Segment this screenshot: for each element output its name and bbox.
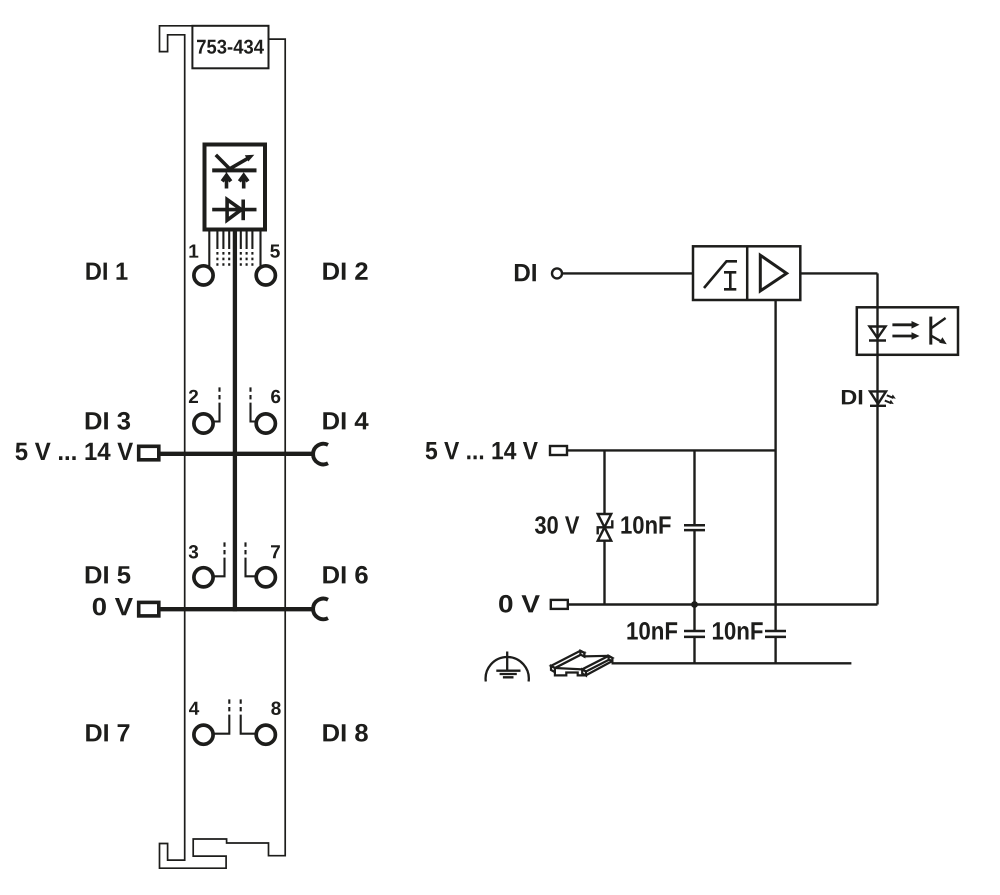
suppressor diode branch upper lead [603,450,605,514]
pin 4 lead dotted [228,252,230,267]
pin 6 lead solid [240,230,242,249]
earth symbol stem [506,652,508,671]
capacitor C1 upper lead [693,450,695,525]
clamp 6 connector [251,407,256,422]
LED box symbol: diode line [212,208,256,212]
amplifier supply tap line [774,300,776,631]
pin number 5 [270,245,280,258]
DI input wire [562,272,693,274]
power jumper contact 5V square [139,446,159,460]
label text 753-434 [197,40,264,54]
pin 2 lead solid [216,230,218,249]
phototransistor base [929,317,932,345]
optocoupler LED triangle [870,327,886,339]
power jumper contact 0V square [139,602,159,616]
label box [192,26,268,69]
clamp circle 8 [256,725,275,744]
suppressor diode triangle up [598,527,611,540]
suppressor diode lower lead [603,541,605,605]
LED box symbol: diagonal arrow [225,159,248,172]
pin number 1 [189,245,198,258]
0V terminal square [551,600,568,609]
LED indicator box [205,145,266,230]
output wire to optocoupler [800,272,877,274]
pin number 7 [271,545,280,558]
main vertical line through optocoupler and LED [876,273,878,604]
label 0V left [93,598,133,616]
label DI 7 [86,724,129,741]
pin number 4 [189,702,199,715]
label DI 2 [323,262,367,280]
capacitor C1 plates [684,525,705,530]
DI status LED triangle [870,391,886,404]
pin 7 lead dotted [246,252,248,267]
optocoupler LED feed line [876,307,878,355]
box divider [746,246,749,300]
earth symbol arc [486,657,529,682]
clamp 3 connector [214,562,224,576]
suppressor diode triangle down [598,514,611,527]
DI status LED arrows [887,395,894,398]
DI input terminal circle [552,268,562,278]
pin 1 lead [208,230,210,266]
clamp circle 4 [194,725,213,744]
pin number 2 [189,390,198,403]
label 30V [535,516,579,534]
label DI input [515,264,536,281]
LED box symbol: bar [212,168,256,172]
label DI 5 [86,566,131,583]
clamp circle 6 [256,414,275,433]
clamp 6 connector dotted [249,387,251,407]
module outline 753 series side profile [160,26,286,868]
pin number 8 [271,702,280,716]
DIN rail symbol [551,651,612,676]
label DI 6 [323,566,367,584]
clamp 2 connector [214,407,219,422]
suppressor diode z-bar [598,520,613,534]
label 5V...14V right [426,442,538,459]
amplifier triangle [760,255,786,291]
phototransistor collector [931,318,946,329]
0V rail [568,603,878,605]
ground rail [612,662,852,664]
optocoupler box [857,307,958,355]
pin 7 lead solid [246,230,248,249]
LED box symbol: diagonal line [216,155,231,171]
capacitor C2 plates [684,631,705,637]
pin number 3 [189,545,198,559]
label 0V right [499,595,540,613]
clamp 4 connector dotted [228,699,230,719]
internal bus (thick center line) [233,230,237,612]
5V terminal square [550,446,567,455]
junction dot [691,601,698,608]
pin 3 lead dotted [222,252,224,267]
ramp symbol [704,261,737,288]
label DI 4 [323,412,368,429]
LED box symbol: up arrow 1 [225,176,229,189]
clamp 4 connector [214,719,229,734]
clamp circle 1 [194,266,213,285]
clamp 7 connector [246,562,256,576]
label DI 3 [86,412,130,430]
phototransistor emitter [931,336,943,343]
earth symbol bars [496,671,520,678]
clamp circle 5 [256,266,275,285]
label 10nF C1 [621,516,670,534]
power jumper 0V line [159,607,313,611]
optocoupler LED bar [869,339,886,341]
pin 3 lead solid [222,230,224,249]
pin 4 lead solid [228,230,230,249]
label 5V...14V left [16,443,134,460]
clamp 8 connector [241,719,255,734]
clamp 8 connector dotted [240,699,242,719]
clamp circle 3 [194,568,213,587]
pin 8 lead solid [251,230,253,249]
label 10nF C3 [713,622,763,640]
pin 8 lead dotted [251,252,253,267]
pin 2 lead dotted [216,252,218,267]
label DI 1 [86,263,127,280]
power jumper 5V hook [313,444,328,465]
capacitor C3 plates [765,631,786,637]
pin 6 lead dotted [240,252,242,267]
pin number 6 [271,390,280,404]
signal conditioner box [693,246,800,300]
label DI 8 [323,724,368,742]
clamp 3 connector dotted [223,542,225,562]
optocoupler light arrow 1 [892,323,912,326]
clamp circle 2 [194,414,213,433]
LED box symbol: diode cathode bar [241,200,245,221]
clamp circle 7 [256,568,275,587]
power jumper 0V hook [313,599,328,620]
label DI LED [842,390,862,404]
power jumper 5V line [159,452,313,456]
LED box symbol: up arrow 2 [242,176,246,189]
LED box symbol: diode triangle [227,200,241,221]
5V rail [567,449,776,451]
clamp 2 connector dotted [218,387,220,407]
I symbol [724,272,736,289]
optocoupler light arrow 2 [892,335,912,338]
pin 5 lead [259,230,261,266]
capacitor C1 lower lead [693,530,695,604]
capacitor C2 leads [693,605,695,664]
label 10nF C2 [627,622,677,640]
clamp 7 connector dotted [244,542,246,562]
DI status LED bar [870,405,886,407]
